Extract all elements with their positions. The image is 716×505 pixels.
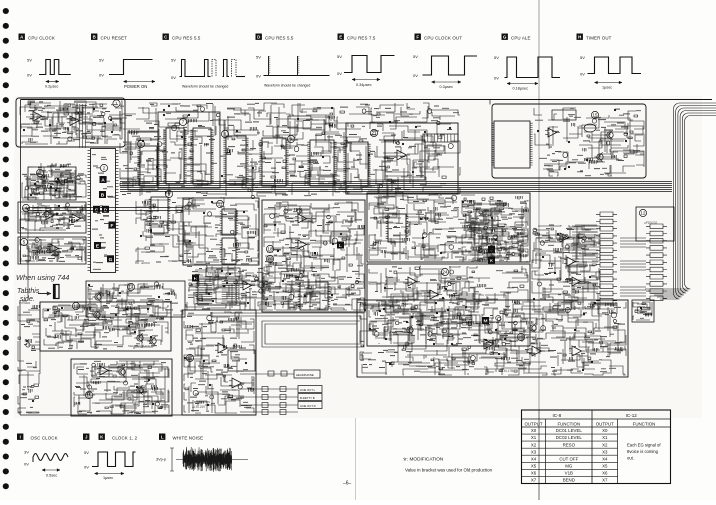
node 18 marker [266, 245, 273, 252]
transistor Q1 [604, 130, 613, 139]
box 14 wiring [88, 282, 183, 315]
node 17 marker [186, 354, 193, 361]
IC16 [386, 214, 409, 242]
IC PC4400 box [552, 110, 576, 120]
test point tag D [102, 206, 109, 214]
svg-text:B: B [93, 35, 96, 40]
node 21 marker [370, 129, 377, 136]
node 23 marker [517, 333, 524, 340]
svg-text:IC-8: IC-8 [552, 413, 561, 418]
svg-text:5V: 5V [256, 55, 261, 60]
svg-text:5V: 5V [99, 57, 104, 62]
bus right wrap [645, 103, 716, 299]
transistor Q9 [527, 323, 536, 332]
svg-text:X6: X6 [531, 471, 537, 476]
svg-text:RESO: RESO [563, 442, 576, 447]
wire top frame right step [489, 100, 491, 105]
svg-text:X6: X6 [602, 471, 608, 476]
node 16 marker [85, 391, 92, 398]
svg-text:5V: 5V [27, 57, 32, 62]
node 1 marker [113, 100, 120, 107]
svg-text:8voice is coming: 8voice is coming [627, 449, 659, 454]
section box 3 [28, 167, 76, 200]
node 9b marker [165, 190, 172, 197]
svg-text:0.18μsec: 0.18μsec [513, 87, 529, 91]
line out R jack row [240, 402, 322, 409]
op-amp U2-b [69, 214, 84, 223]
op-amp U12 [564, 257, 579, 266]
wires left column [22, 163, 86, 200]
waveform I: OSC CLOCK label [17, 434, 23, 440]
section box 16 [71, 359, 172, 416]
svg-text:ALM-17B: ALM-17B [500, 369, 513, 373]
svg-text:CPU CLOCK: CPU CLOCK [28, 35, 55, 40]
svg-text:0V: 0V [580, 72, 585, 77]
node 24 marker [441, 268, 448, 275]
svg-text:0V: 0V [84, 465, 89, 470]
binder holes (left edge perforation) [3, 8, 9, 489]
long vertical wires left of CPU [79, 104, 81, 148]
svg-text:FUNCTION: FUNCTION [557, 421, 580, 426]
schematic left border [20, 100, 22, 265]
svg-text:0.34μsec: 0.34μsec [356, 83, 372, 87]
op-amp U17 [481, 339, 497, 349]
svg-text:X7: X7 [602, 478, 608, 483]
waveform K: CLOCK 1,2 trace [84, 450, 136, 480]
waveform L: WHITE NOISE trace [156, 447, 248, 472]
svg-text:0.5sec: 0.5sec [46, 474, 57, 478]
section box 23 [357, 300, 628, 377]
address bus [28, 208, 183, 301]
waveform K: CLOCK 1,2 label [99, 434, 105, 440]
svg-text:※: MODIFICATION: ※: MODIFICATION [403, 457, 443, 462]
IC12 [220, 238, 238, 264]
section box 1 [16, 98, 125, 147]
svg-text:11: 11 [218, 202, 223, 207]
waveform D: CPU RES 5.5 label [256, 34, 262, 40]
op-amp U19 [569, 346, 585, 356]
top mid wiring [120, 103, 460, 196]
power supply strip [20, 300, 256, 415]
box 16 wiring [74, 361, 169, 414]
node 20 marker [266, 255, 273, 262]
svg-text:Value in bracket was used for: Value in bracket was used for Old produc… [405, 468, 493, 473]
svg-text:LINE OUT R: LINE OUT R [300, 404, 316, 408]
svg-text:12: 12 [641, 211, 646, 216]
svg-text:OUTPUT: OUTPUT [524, 421, 542, 426]
section box C-4 monitor [367, 193, 530, 262]
IC7 [307, 140, 336, 186]
op-amp U1-b [67, 116, 83, 126]
box 17 wiring [184, 312, 254, 413]
op-amp U5 [545, 128, 560, 137]
IC9 with comparator [385, 140, 425, 180]
svg-text:E: E [339, 35, 342, 40]
svg-text:X4: X4 [602, 456, 608, 461]
test point tag H [192, 275, 199, 283]
transistor Q8 [134, 385, 143, 394]
IC14 B7C15 [196, 279, 239, 305]
waveform G: CPU ALE label [502, 34, 508, 40]
svg-text:Waveform should be changed: Waveform should be changed [264, 84, 310, 88]
IC2 latch [137, 146, 159, 186]
box 11 wiring [136, 195, 258, 264]
svg-text:CPU RES 7.5: CPU RES 7.5 [347, 35, 376, 40]
svg-text:DC02 LEVEL: DC02 LEVEL [556, 435, 583, 440]
svg-text:uPD5232: uPD5232 [644, 221, 658, 225]
transistor Q3 [91, 310, 100, 319]
svg-text:TIMER OUT: TIMER OUT [586, 35, 612, 40]
svg-text:L: L [161, 435, 164, 440]
svg-text:1μsec: 1μsec [602, 86, 612, 90]
svg-text:5V: 5V [84, 450, 89, 455]
waveform E: CPU RES 7.5 label [338, 34, 344, 40]
svg-text:IC-12: IC-12 [626, 413, 638, 418]
waveform J label [83, 434, 89, 440]
CPU pin labels [92, 155, 115, 270]
svg-text:ALM-159: ALM-159 [192, 405, 205, 409]
waveform H: TIMER OUT trace [580, 55, 641, 90]
svg-text:X1: X1 [531, 435, 537, 440]
wires in box 3 [30, 170, 75, 198]
node 8 marker [221, 130, 228, 137]
node 13 marker [72, 302, 79, 309]
page fold line [538, 0, 540, 410]
use volt box [632, 300, 654, 322]
section box 7 (DRAM) [158, 112, 220, 188]
svg-text:V1B: V1B [565, 471, 573, 476]
svg-text:B: B [101, 193, 105, 199]
headphone jack row [240, 370, 320, 378]
mid analog wiring [264, 202, 365, 310]
IC13 small [149, 197, 170, 233]
svg-text:POWER: POWER [19, 301, 31, 305]
page fold line lower [538, 410, 540, 500]
op-amp U6 [240, 281, 255, 290]
svg-text:0V: 0V [413, 73, 418, 78]
svg-text:DC01 LEVEL: DC01 LEVEL [556, 428, 583, 433]
op-amp U8 [295, 240, 310, 249]
IC5 [223, 136, 248, 184]
EFG translator label box [206, 268, 240, 277]
test point tag J [488, 246, 495, 254]
schematic outer top border [21, 99, 713, 101]
clock out node K [479, 258, 483, 262]
svg-text:5V: 5V [580, 55, 585, 60]
section box 11 [183, 198, 259, 265]
wires in box 4 [20, 203, 85, 231]
waveform A: CPU CLOCK label [19, 34, 25, 40]
svg-text:3V: 3V [24, 450, 29, 455]
node 15 marker [591, 111, 598, 118]
op-amp U1-a [30, 112, 46, 122]
line out L jack row [240, 386, 322, 393]
section box 21 [346, 123, 458, 194]
transistor Q7 [116, 367, 125, 376]
test point tag K [488, 257, 495, 265]
svg-text:CPU RESET: CPU RESET [101, 35, 128, 40]
svg-text:Tabthis: Tabthis [17, 288, 40, 295]
data bus [120, 182, 672, 192]
svg-text:0V: 0V [99, 72, 104, 77]
section box 24 [367, 264, 530, 346]
svg-text:CUT OFF: CUT OFF [559, 456, 578, 461]
aux2 jack row [240, 410, 298, 415]
svg-text:X5: X5 [602, 464, 608, 469]
svg-text:X4: X4 [531, 456, 537, 461]
svg-text:F: F [111, 223, 114, 229]
clock out node J [479, 248, 483, 252]
svg-text:LINE OUT L: LINE OUT L [300, 388, 316, 392]
right mid wiring [462, 200, 528, 262]
svg-text:0V: 0V [256, 74, 261, 79]
svg-text:OSC CLOCK: OSC CLOCK [31, 435, 58, 440]
tag L [337, 242, 344, 250]
svg-text:X2: X2 [531, 442, 537, 447]
svg-text:CPU ALE: CPU ALE [511, 35, 531, 40]
waveform C: CPU RES 5.5 trace [171, 58, 245, 89]
svg-text:When using 744: When using 744 [16, 273, 69, 282]
svg-text:5V: 5V [413, 54, 418, 59]
section box 18-20 [262, 200, 365, 312]
svg-text:F: F [416, 35, 419, 40]
svg-text:5V: 5V [337, 54, 342, 59]
section box 6 [128, 132, 158, 190]
node 9 marker [287, 135, 294, 142]
svg-text:0.3μsec: 0.3μsec [440, 85, 453, 89]
IC6 [259, 138, 288, 186]
test point tag A [100, 176, 107, 184]
svg-text:5V: 5V [171, 58, 176, 63]
arrow to tab [38, 292, 51, 296]
op-amp U3 [47, 244, 62, 253]
IC3 MB81464 [163, 128, 186, 184]
region below box11 wiring [186, 266, 320, 310]
svg-text:Waveform should be changed: Waveform should be changed [182, 85, 228, 89]
svg-text:BEND: BEND [563, 478, 575, 483]
node 6 marker [137, 140, 144, 147]
IC8 [343, 142, 370, 186]
op-amp U9 [405, 277, 420, 286]
op-amp U15 [215, 343, 231, 353]
waveform G: CPU ALE trace [494, 55, 560, 91]
wires in box 1 [20, 101, 122, 144]
svg-text:3Vp-p: 3Vp-p [156, 458, 166, 462]
node 14 marker [127, 283, 134, 290]
test point tag C [93, 206, 100, 214]
svg-text:POWER ON: POWER ON [124, 84, 147, 89]
op-amp U10 [427, 290, 442, 299]
monitor box wiring [369, 195, 528, 260]
transistor Q4 [134, 333, 143, 342]
waveform L: WHITE NOISE label [159, 434, 165, 440]
waveform C: CPU RES 5.5 label [163, 34, 169, 40]
svg-text:X1: X1 [602, 435, 608, 440]
IC10 [491, 121, 532, 168]
use volt parts [633, 302, 652, 320]
small logic box [288, 116, 311, 128]
node 7 marker [179, 118, 186, 125]
relay box in box 16 [92, 367, 168, 377]
svg-text:21: 21 [372, 131, 377, 136]
hatched connector bar [423, 134, 458, 142]
transistor Q10 [404, 325, 413, 334]
svg-text:B-RETTY B: B-RETTY B [300, 396, 315, 400]
svg-text:X3: X3 [602, 449, 608, 454]
svg-text:X0: X0 [602, 428, 608, 433]
svg-text:M: M [484, 319, 488, 325]
svg-text:WHITE NOISE: WHITE NOISE [173, 435, 204, 440]
svg-text:1μsec: 1μsec [103, 476, 113, 480]
section box 14 [86, 281, 185, 317]
crease line bottom [355, 418, 357, 500]
op-amp U14 [97, 366, 112, 375]
svg-text:I: I [20, 435, 21, 440]
modification note [403, 457, 493, 473]
svg-text:CPU RES 5.5: CPU RES 5.5 [265, 35, 294, 40]
handwritten note line 1 [16, 273, 69, 282]
resistor array RA2 [646, 224, 667, 301]
section box 13 [40, 302, 171, 351]
box 23 wiring [360, 302, 626, 375]
right analog wiring [532, 225, 600, 310]
svg-text:HEADPHONE: HEADPHONE [296, 373, 314, 377]
waveform A: CPU CLOCK trace [27, 57, 71, 88]
svg-text:0V: 0V [494, 76, 499, 81]
waveform I: OSC CLOCK trace [24, 450, 68, 478]
test point tag B [99, 191, 106, 199]
wires in box 5 [20, 238, 85, 262]
svg-text:CLOCK 1, 2: CLOCK 1, 2 [112, 435, 138, 440]
svg-text:0.2μsec: 0.2μsec [45, 85, 58, 89]
node 11 marker [216, 200, 223, 207]
waveform H: TIMER OUT label [577, 34, 583, 40]
tab marker [54, 285, 60, 299]
svg-text:out.: out. [627, 456, 634, 461]
svg-text:X0: X0 [531, 428, 537, 433]
waveform F: CPU CLOCK OUT trace [413, 54, 477, 89]
IC11 [220, 209, 238, 235]
node 3 marker [36, 169, 43, 176]
svg-text:5V: 5V [494, 55, 499, 60]
test point tag E [94, 242, 101, 250]
handwritten note line 2 [17, 288, 40, 303]
section box 4 [18, 202, 86, 233]
svg-text:Each EG signal of: Each EG signal of [627, 443, 661, 448]
box 15 wiring [534, 108, 644, 176]
node 12 marker [639, 209, 646, 216]
test point tag G [107, 255, 114, 262]
tag M [482, 317, 489, 325]
crystal oscillator [584, 124, 596, 132]
section box 5 [18, 237, 86, 264]
svg-text:A: A [101, 178, 105, 184]
svg-text:18: 18 [268, 247, 273, 252]
section box 12 [636, 207, 674, 241]
svg-text:D: D [257, 35, 260, 40]
box 24 wiring [369, 266, 528, 344]
box 13 wiring [43, 305, 168, 349]
op-amp U13 [569, 277, 584, 286]
transistor Q5 [147, 336, 156, 345]
svg-text:–6–: –6– [343, 481, 352, 487]
svg-text:X5: X5 [531, 464, 537, 469]
IC output function table [522, 410, 671, 484]
svg-text:0V: 0V [337, 71, 342, 76]
waveform F: CPU CLOCK OUT label [415, 34, 421, 40]
svg-text:G: G [503, 35, 507, 40]
node 5 marker [20, 238, 27, 245]
CPU IC1 uPD7810 [88, 149, 119, 273]
svg-text:0V: 0V [27, 72, 32, 77]
test point tag F [109, 222, 116, 230]
IC15 [298, 282, 331, 310]
op-amp U11 [557, 233, 572, 242]
signal loop wires [210, 313, 364, 347]
svg-text:X2: X2 [602, 442, 608, 447]
transistor Q6 [92, 292, 101, 301]
section box 15 [492, 104, 646, 178]
aux jack row [240, 394, 322, 401]
svg-text:H: H [578, 35, 581, 40]
transistor Q2 [594, 152, 603, 161]
node 4 marker [22, 204, 29, 211]
op-amp U18 [529, 346, 545, 356]
power strip parts [18, 301, 40, 413]
svg-text:CPU CLOCK OUT: CPU CLOCK OUT [424, 35, 462, 40]
svg-text:0V: 0V [171, 75, 176, 80]
svg-text:X7: X7 [531, 478, 537, 483]
op-amp U4 [394, 150, 410, 160]
svg-text:0V: 0V [24, 462, 29, 467]
op-amp U7 [295, 214, 310, 223]
waveform B: CPU RESET trace [99, 57, 155, 89]
section box 17 [182, 310, 256, 415]
svg-text:X3: X3 [531, 449, 537, 454]
svg-text:MG: MG [565, 464, 573, 469]
waveform D: CPU RES 5.5 trace [256, 55, 330, 88]
resistor array RA1 [596, 212, 617, 303]
svg-text:OUTPUT: OUTPUT [596, 421, 614, 426]
waveform B: CPU RESET label [91, 34, 97, 40]
svg-text:G: G [109, 257, 113, 263]
fan wires to resistor arrays [572, 226, 646, 296]
svg-text:CPU RES 5.5: CPU RES 5.5 [172, 35, 201, 40]
IC4 MB81464 [190, 128, 213, 184]
svg-text:FUNCTION: FUNCTION [633, 421, 656, 426]
op-amp U16 [229, 378, 245, 388]
node 2 marker [100, 164, 107, 171]
waveform E: CPU RES 7.5 trace [337, 54, 395, 87]
IC sub-box in box 17 [228, 350, 255, 371]
op-amp U2-a [43, 211, 58, 220]
